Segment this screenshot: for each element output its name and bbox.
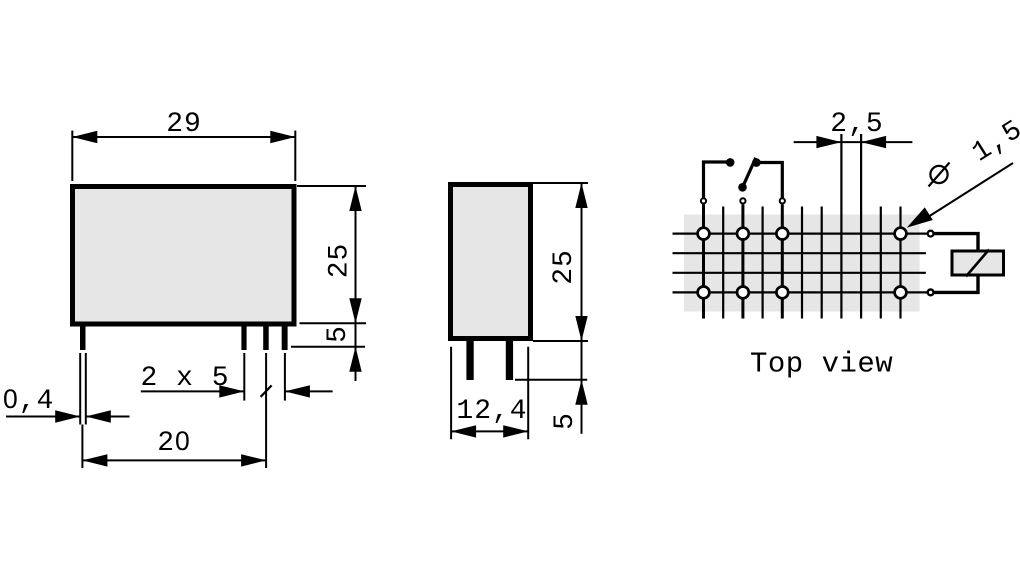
svg-text:25: 25 xyxy=(549,249,580,285)
svg-text:0,4: 0,4 xyxy=(3,384,54,417)
svg-text:2,5: 2,5 xyxy=(830,109,883,140)
dimension 29 extension lines xyxy=(71,131,73,181)
dimension 20 line xyxy=(81,425,83,469)
coil terminal small circle top xyxy=(928,231,934,237)
svg-text:2 x 5: 2 x 5 xyxy=(140,363,229,394)
right-side extension line body bottom (front) xyxy=(300,322,367,324)
svg-text:25: 25 xyxy=(325,243,356,279)
relay body front view xyxy=(73,187,295,325)
right-side extension line top (front) xyxy=(297,185,366,187)
svg-text:5: 5 xyxy=(550,412,581,430)
pin extension lines 2x5 xyxy=(243,353,245,401)
contact schematic: terminal circles xyxy=(701,198,785,203)
contact schematic: left fixed contact wire xyxy=(704,162,729,198)
shaded pcb band xyxy=(684,215,920,312)
side view pin right xyxy=(506,341,513,380)
contact dot left xyxy=(726,158,735,167)
pin 4 (front view) xyxy=(282,326,288,350)
svg-text:29: 29 xyxy=(166,109,202,140)
coil wire bottom xyxy=(934,277,978,293)
dimension 25 line (front right) xyxy=(355,186,357,381)
svg-text:Top view: Top view xyxy=(750,348,893,381)
coil terminal small circle bottom xyxy=(928,290,934,296)
side view right extension lines xyxy=(533,182,588,184)
coil symbol xyxy=(952,251,1004,275)
contact schematic: right fixed contact wire xyxy=(758,163,782,198)
grid horizontal lines xyxy=(673,234,928,293)
coil wire top xyxy=(934,234,978,250)
side view pin left xyxy=(466,341,473,380)
pin holes row 2 xyxy=(698,287,710,299)
pin 2 (front view) xyxy=(241,326,246,350)
relay body side view xyxy=(451,185,531,339)
contact dot right xyxy=(752,158,761,167)
pin1 width extension lines (0,4) xyxy=(79,353,81,425)
pin 1 (front view left) xyxy=(80,326,86,350)
grid vertical lines xyxy=(723,134,900,319)
right-side extension line pin bottom (front) xyxy=(291,346,365,348)
oblique tick at middle pin xyxy=(261,385,272,397)
terminal columns (thicker) xyxy=(704,205,783,319)
dimension 25 line (side) xyxy=(581,183,583,434)
movable contact pivot dot xyxy=(738,183,747,192)
pin holes row 1 xyxy=(698,228,907,299)
dimension 12,4 line xyxy=(451,430,528,432)
dimension 29 line xyxy=(72,136,295,138)
12,4 extension lines xyxy=(450,347,452,440)
dimension 2 x 5 line xyxy=(141,390,245,392)
svg-text:20: 20 xyxy=(157,426,191,459)
coil slash xyxy=(966,250,989,277)
pin 3 (front view) xyxy=(263,326,269,350)
dimension 0,4 line xyxy=(6,416,80,418)
dimension 2,5 line xyxy=(794,141,913,143)
movable contact arm xyxy=(743,158,756,188)
leader line dia 1,5 xyxy=(928,163,1013,217)
svg-text:12,4: 12,4 xyxy=(456,396,527,427)
svg-text:5: 5 xyxy=(323,325,354,343)
leader text dia 1,5 xyxy=(929,163,950,187)
